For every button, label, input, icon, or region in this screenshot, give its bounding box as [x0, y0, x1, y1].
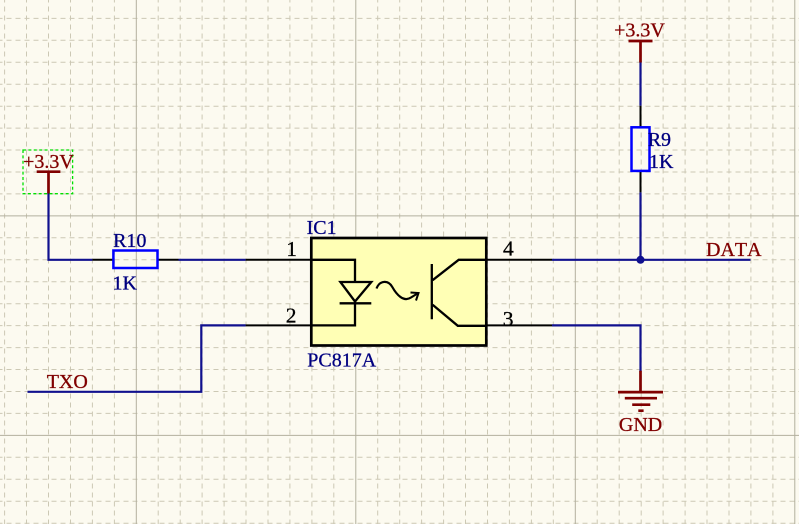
svg-text:1K: 1K — [113, 273, 138, 295]
svg-text:DATA: DATA — [706, 239, 762, 261]
svg-text:GND: GND — [619, 414, 662, 436]
svg-text:PC817A: PC817A — [307, 349, 376, 371]
svg-text:1: 1 — [286, 237, 297, 261]
svg-text:2: 2 — [286, 303, 297, 327]
svg-text:+3.3V: +3.3V — [23, 151, 74, 173]
svg-text:3: 3 — [503, 307, 514, 331]
svg-text:IC1: IC1 — [307, 217, 337, 239]
svg-text:4: 4 — [503, 237, 514, 261]
svg-text:TXO: TXO — [47, 371, 88, 393]
svg-text:1K: 1K — [649, 151, 674, 173]
svg-text:R10: R10 — [113, 230, 146, 252]
svg-text:+3.3V: +3.3V — [614, 19, 665, 41]
svg-text:R9: R9 — [648, 129, 671, 151]
